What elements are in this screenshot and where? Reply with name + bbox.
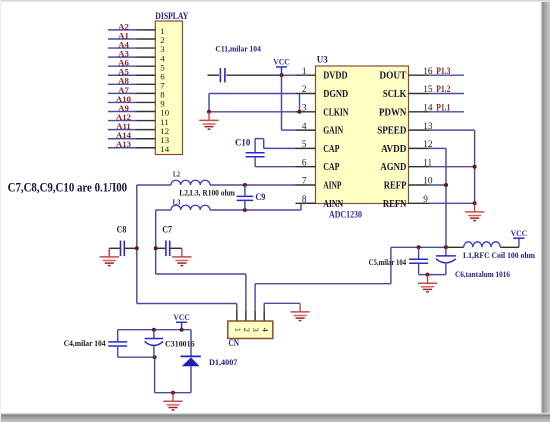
svg-text:C8: C8: [117, 224, 127, 234]
svg-text:D1,4007: D1,4007: [209, 357, 238, 367]
svg-text:C7,C8,C9,C10 are 0.1Л00: C7,C8,C9,C10 are 0.1Л00: [8, 179, 128, 194]
svg-text:A13: A13: [116, 139, 132, 149]
svg-text:P1.3: P1.3: [436, 67, 450, 77]
svg-text:6: 6: [302, 158, 307, 168]
svg-text:AINP: AINP: [323, 181, 341, 192]
svg-text:L3: L3: [173, 198, 181, 207]
svg-text:C310016: C310016: [165, 338, 195, 348]
svg-text:P1.1: P1.1: [436, 104, 450, 114]
svg-text:AGND: AGND: [380, 162, 406, 173]
svg-text:DVDD: DVDD: [323, 71, 347, 82]
svg-text:C7: C7: [162, 224, 172, 234]
svg-text:GAIN: GAIN: [323, 126, 344, 137]
svg-text:5: 5: [302, 140, 307, 150]
svg-text:REFN: REFN: [383, 199, 407, 210]
svg-text:ADC1230: ADC1230: [329, 210, 362, 220]
svg-text:1: 1: [233, 328, 242, 332]
svg-text:P1.2: P1.2: [436, 85, 450, 95]
svg-text:14: 14: [160, 144, 169, 154]
svg-text:AVDD: AVDD: [381, 144, 406, 155]
svg-text:L1,RFC Coil 100 ohm: L1,RFC Coil 100 ohm: [463, 250, 535, 260]
svg-text:7: 7: [302, 177, 307, 187]
svg-text:L2,L3, R100 ohm: L2,L3, R100 ohm: [179, 189, 235, 198]
svg-text:3: 3: [302, 104, 307, 114]
svg-text:C11,milar 104: C11,milar 104: [215, 44, 261, 54]
svg-text:1: 1: [302, 67, 307, 77]
svg-text:SPEED: SPEED: [377, 126, 406, 137]
svg-text:4: 4: [302, 122, 307, 132]
svg-text:C9: C9: [255, 192, 265, 202]
svg-text:VCC: VCC: [273, 57, 290, 67]
svg-text:DGND: DGND: [323, 89, 348, 100]
svg-text:CAP: CAP: [323, 162, 339, 173]
svg-text:U3: U3: [317, 56, 328, 66]
svg-text:SCLK: SCLK: [383, 89, 407, 100]
svg-text:PDWN: PDWN: [379, 107, 407, 118]
svg-text:2: 2: [302, 85, 307, 95]
svg-text:CLKIN: CLKIN: [323, 107, 349, 118]
svg-text:DOUT: DOUT: [379, 71, 406, 82]
svg-text:DISPLAY: DISPLAY: [155, 11, 188, 21]
svg-text:C5,milar 104: C5,milar 104: [369, 257, 407, 267]
svg-text:3: 3: [251, 328, 260, 332]
svg-text:C10: C10: [235, 137, 251, 147]
svg-text:CN: CN: [229, 338, 240, 348]
svg-text:REFP: REFP: [384, 181, 407, 192]
svg-text:VCC: VCC: [173, 312, 190, 322]
svg-text:C6,tantalum 1016: C6,tantalum 1016: [455, 269, 510, 279]
svg-text:VCC: VCC: [511, 228, 528, 238]
svg-text:L2: L2: [173, 170, 180, 179]
svg-text:C4,milar 104: C4,milar 104: [64, 338, 107, 348]
svg-text:AINN: AINN: [323, 199, 344, 210]
svg-text:2: 2: [242, 328, 251, 332]
svg-text:4: 4: [260, 328, 269, 332]
svg-text:CAP: CAP: [323, 144, 339, 155]
svg-text:9: 9: [423, 195, 428, 205]
